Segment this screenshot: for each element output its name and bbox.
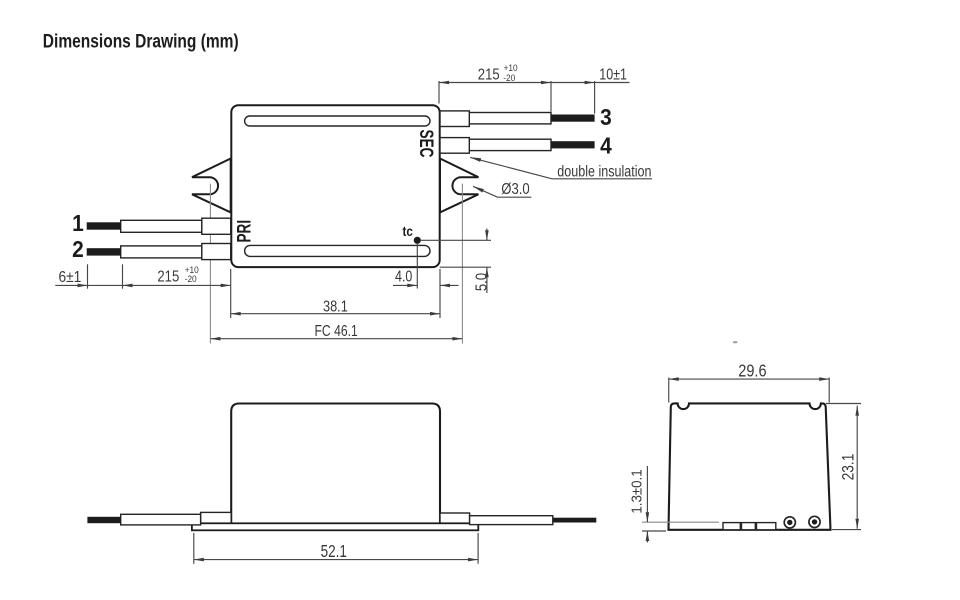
svg-text:5.0: 5.0 <box>473 273 490 291</box>
svg-text:-20: -20 <box>185 273 197 284</box>
svg-text:1.3±0.1: 1.3±0.1 <box>628 469 645 513</box>
svg-text:3: 3 <box>600 104 612 130</box>
svg-text:38.1: 38.1 <box>323 298 348 315</box>
svg-text:tc: tc <box>403 223 413 239</box>
svg-text:Ø3.0: Ø3.0 <box>501 181 529 198</box>
svg-text:29.6: 29.6 <box>738 362 766 380</box>
svg-text:10±1: 10±1 <box>599 65 627 83</box>
svg-text:FC 46.1: FC 46.1 <box>314 322 357 340</box>
svg-text:-20: -20 <box>503 72 515 83</box>
svg-text:double insulation: double insulation <box>557 162 651 179</box>
svg-text:Dimensions Drawing (mm): Dimensions Drawing (mm) <box>43 30 239 52</box>
svg-text:4.0: 4.0 <box>395 267 412 285</box>
svg-text:1: 1 <box>72 210 84 236</box>
svg-text:SEC: SEC <box>415 130 437 158</box>
svg-text:215: 215 <box>157 268 179 285</box>
svg-text:6±1: 6±1 <box>58 269 81 286</box>
svg-text:+10: +10 <box>504 62 518 73</box>
svg-text:PRI: PRI <box>233 220 255 243</box>
svg-text:215: 215 <box>478 66 500 83</box>
svg-text:4: 4 <box>600 132 612 158</box>
svg-text:23.1: 23.1 <box>839 454 858 481</box>
svg-text:2: 2 <box>72 236 84 262</box>
svg-text:52.1: 52.1 <box>321 543 347 562</box>
